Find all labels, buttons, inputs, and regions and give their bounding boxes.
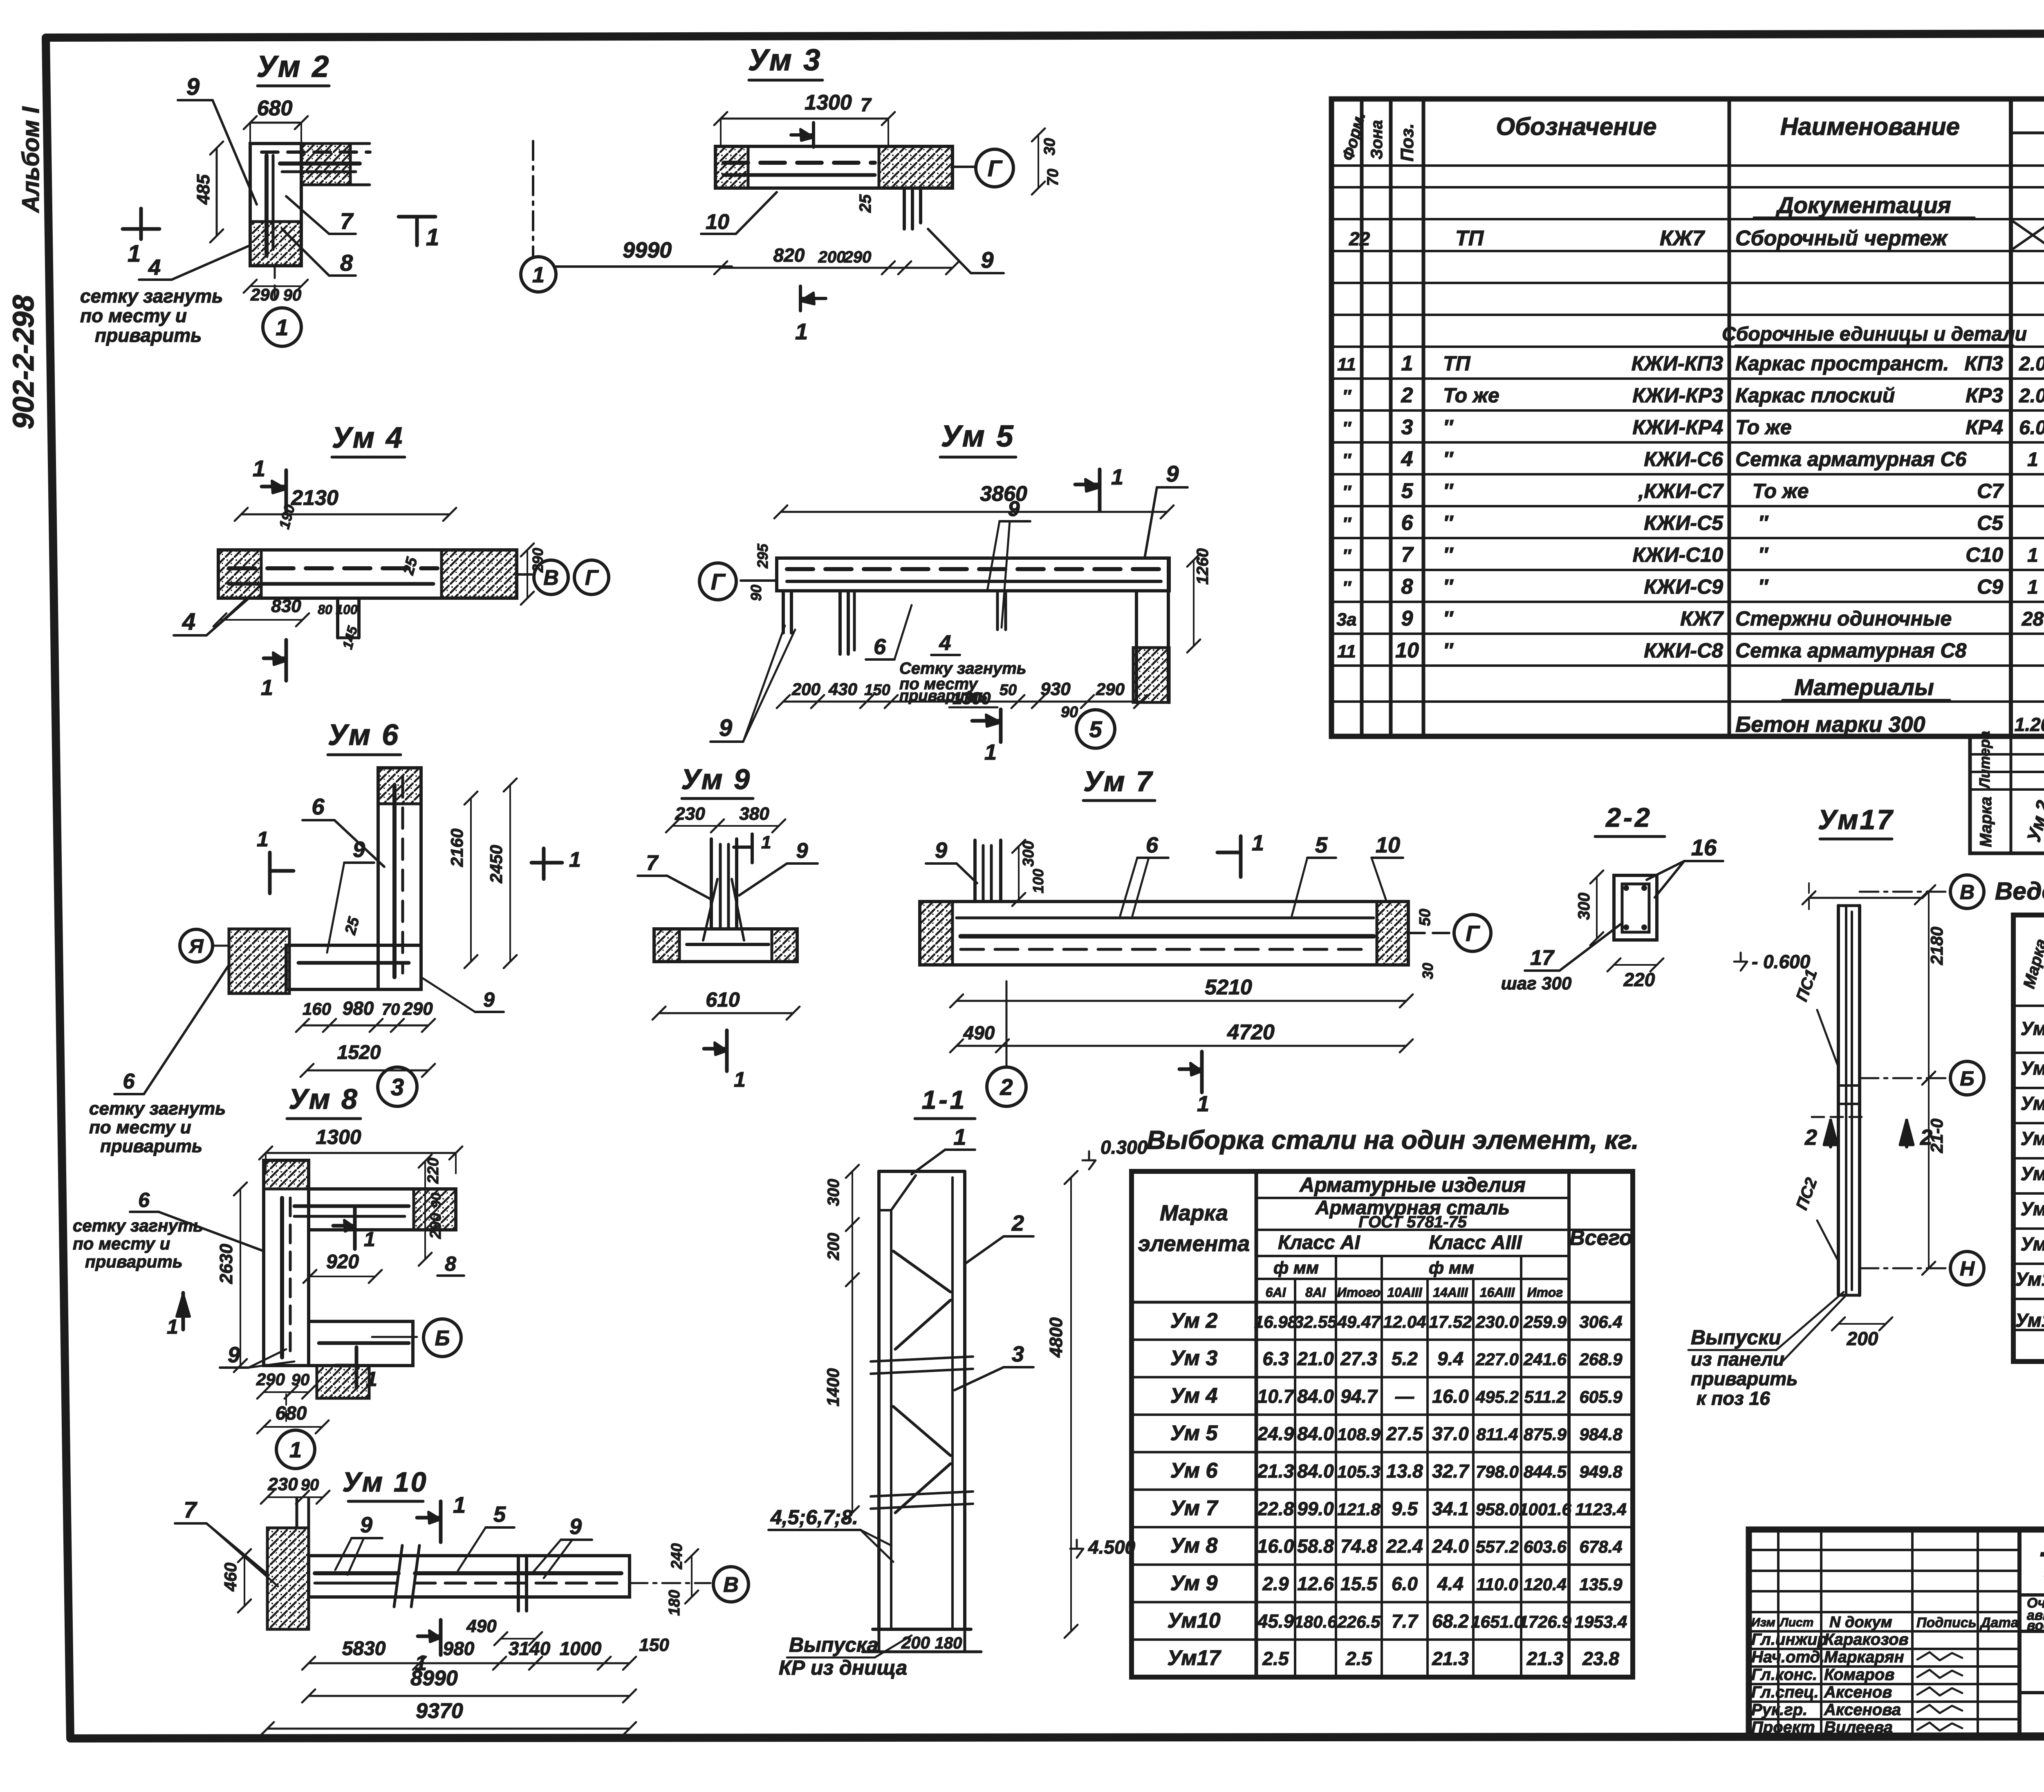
svg-text:КЖИ-С8: КЖИ-С8 <box>1644 639 1723 662</box>
svg-text:Марка: Марка <box>1977 797 1995 848</box>
svg-text:11: 11 <box>1337 354 1356 375</box>
svg-text:9: 9 <box>228 1343 240 1367</box>
svg-text:30: 30 <box>1419 963 1436 979</box>
Um9 base slab <box>654 929 797 962</box>
svg-text:1-1: 1-1 <box>922 1085 967 1115</box>
svg-text:21.0: 21.0 <box>1297 1348 1334 1369</box>
svg-text:7: 7 <box>184 1497 197 1523</box>
svg-text:Ум 9: Ум 9 <box>681 763 751 795</box>
Um10 rebar hooks mid <box>517 1557 520 1611</box>
svg-text:Ум 2: Ум 2 <box>257 49 331 83</box>
svg-text:8АI: 8АI <box>1305 1285 1326 1300</box>
svg-text:9: 9 <box>719 715 732 741</box>
Um4 right small dim 290 <box>527 550 528 598</box>
svg-text:Материалы: Материалы <box>1794 674 1934 700</box>
svg-text:24.0: 24.0 <box>1432 1536 1469 1557</box>
svg-text:″: ″ <box>1443 480 1454 502</box>
svg-text:6АI: 6АI <box>1266 1285 1286 1300</box>
svg-text:16.0: 16.0 <box>1432 1386 1469 1407</box>
svg-text:7: 7 <box>340 208 354 234</box>
svg-text:Ум 8: Ум 8 <box>289 1083 359 1115</box>
svg-text:Ум 3: Ум 3 <box>748 43 822 77</box>
svg-text:1: 1 <box>426 224 439 251</box>
svg-text:Ум8: Ум8 <box>2021 1198 2044 1219</box>
svg-text:290: 290 <box>402 999 433 1019</box>
title block description <box>2019 1593 2044 1597</box>
Um17 section arrows 2-2 <box>1812 1116 1864 1118</box>
svg-text:5: 5 <box>493 1502 506 1527</box>
Um3 drop stub <box>903 188 906 229</box>
Um8 circle right <box>372 1336 417 1338</box>
svg-text:17.52: 17.52 <box>1429 1312 1472 1331</box>
svg-text:4,5;6,7;8.: 4,5;6,7;8. <box>770 1506 858 1529</box>
svg-text:241.6: 241.6 <box>1523 1350 1567 1369</box>
svg-text:1: 1 <box>795 318 808 344</box>
svg-text:ГОСТ 5781-75: ГОСТ 5781-75 <box>1358 1213 1467 1231</box>
svg-text:Рук.гр.: Рук.гр. <box>1751 1701 1807 1719</box>
Um5 slab <box>777 558 1169 591</box>
axis line with circle 1 and dim 9990 <box>532 141 534 257</box>
Um10 right rotated dims 240 180 <box>691 1556 693 1597</box>
svg-text:2: 2 <box>1011 1211 1024 1236</box>
svg-text:″: ″ <box>1342 386 1351 406</box>
svg-text:4: 4 <box>148 255 161 280</box>
svg-text:″: ″ <box>1342 578 1351 598</box>
svg-text:1: 1 <box>953 1124 966 1150</box>
1-1 right dim 4800 <box>1070 1177 1072 1631</box>
svg-text:90: 90 <box>428 1193 444 1208</box>
svg-text:23.8: 23.8 <box>1582 1648 1619 1669</box>
svg-text:Документация: Документация <box>1775 192 1951 218</box>
Um17 panel element <box>1837 906 1840 1295</box>
svg-text:105.3: 105.3 <box>1337 1462 1380 1481</box>
Um3 slab reinforcement <box>724 161 875 165</box>
svg-text:2180: 2180 <box>1927 927 1946 965</box>
svg-text:Ум9: Ум9 <box>2021 1233 2044 1254</box>
Um7 slab reinforcement <box>961 934 1374 939</box>
svg-text:ТП: ТП <box>1443 352 1471 375</box>
svg-text:7.7: 7.7 <box>1392 1610 1419 1632</box>
svg-text:3: 3 <box>1012 1342 1024 1366</box>
svg-text:9990: 9990 <box>623 238 672 262</box>
svg-text:Сетка арматурная С6: Сетка арматурная С6 <box>1735 448 1967 471</box>
svg-text:90: 90 <box>1061 704 1078 721</box>
svg-text:В: В <box>1960 881 1975 904</box>
svg-text:108.9: 108.9 <box>1337 1424 1381 1444</box>
svg-text:200: 200 <box>825 1233 843 1260</box>
signatures scribbles <box>1917 1652 1962 1660</box>
Um8 circle 1 bottom <box>285 1394 287 1427</box>
Um5 mid stubs <box>996 591 999 630</box>
svg-text:″: ″ <box>1342 482 1351 502</box>
svg-text:Ум5: Ум5 <box>2021 1092 2044 1114</box>
specification table <box>1331 99 2044 736</box>
svg-text:Ум7: Ум7 <box>2021 1163 2044 1184</box>
svg-text:3140: 3140 <box>509 1638 551 1659</box>
svg-text:15.5: 15.5 <box>1340 1573 1378 1594</box>
svg-text:по месту и: по месту и <box>89 1117 191 1137</box>
svg-text:8: 8 <box>445 1252 456 1275</box>
Um17 panel joint marks <box>1838 1084 1860 1087</box>
Um5 circle G left <box>741 579 777 582</box>
svg-text:1123.4: 1123.4 <box>1575 1500 1626 1519</box>
svg-text:Вилеева: Вилеева <box>1824 1718 1893 1736</box>
svg-text:КЖИ-КП3: КЖИ-КП3 <box>1632 352 1723 375</box>
svg-text:610: 610 <box>706 988 740 1011</box>
svg-text:КЖИ-С6: КЖИ-С6 <box>1644 448 1724 471</box>
svg-text:сетку загнуть: сетку загнуть <box>80 285 223 307</box>
svg-text:875.9: 875.9 <box>1524 1424 1567 1444</box>
svg-text:Дата: Дата <box>1979 1615 2019 1631</box>
svg-text:Ум 7: Ум 7 <box>1083 765 1154 797</box>
svg-text:То же: То же <box>1735 416 1792 439</box>
svg-text:511.2: 511.2 <box>1524 1387 1566 1406</box>
svg-text:Ум 3: Ум 3 <box>1170 1346 1218 1370</box>
svg-text:5210: 5210 <box>1205 976 1252 999</box>
svg-text:″: ″ <box>1443 575 1454 598</box>
svg-text:1400: 1400 <box>823 1368 843 1406</box>
svg-text:Комаров: Комаров <box>1824 1666 1894 1684</box>
svg-text:557.2: 557.2 <box>1476 1537 1519 1557</box>
Um10 section marks 1 <box>439 1501 443 1542</box>
svg-text:1: 1 <box>366 1368 377 1391</box>
svg-text:из панели: из панели <box>1691 1348 1784 1370</box>
svg-text:Б: Б <box>435 1327 450 1350</box>
svg-text:200: 200 <box>818 248 846 266</box>
Um8 reinforcement <box>280 1198 284 1357</box>
svg-text:820: 820 <box>773 244 805 266</box>
svg-text:1: 1 <box>761 832 771 852</box>
svg-text:4800: 4800 <box>1046 1317 1066 1358</box>
svg-text:10: 10 <box>1376 833 1400 857</box>
Um3 bottom section mark <box>799 286 802 311</box>
svg-text:9.5: 9.5 <box>1392 1498 1418 1519</box>
svg-text:160: 160 <box>303 999 331 1018</box>
svg-text:КЖИ-С9: КЖИ-С9 <box>1644 575 1723 598</box>
svg-text:Стержни одиночные: Стержни одиночные <box>1735 607 1952 630</box>
svg-text:958.0: 958.0 <box>1476 1500 1519 1519</box>
svg-text:Поз.: Поз. <box>1397 123 1417 161</box>
svg-text:110.0: 110.0 <box>1477 1574 1518 1594</box>
svg-text:9: 9 <box>1008 497 1020 521</box>
svg-text:1: 1 <box>532 262 545 287</box>
svg-text:495.2: 495.2 <box>1475 1387 1519 1406</box>
Um4 bottom section mark <box>285 640 288 681</box>
svg-text:2: 2 <box>1920 1125 1932 1150</box>
svg-text:45.9: 45.9 <box>1257 1610 1294 1632</box>
svg-text:1: 1 <box>453 1492 466 1518</box>
svg-text:Маркарян: Маркарян <box>1824 1648 1904 1666</box>
svg-text:1000: 1000 <box>560 1638 602 1659</box>
svg-text:1300: 1300 <box>316 1126 361 1148</box>
svg-text:2.0: 2.0 <box>2019 385 2044 407</box>
svg-text:10: 10 <box>1395 639 1419 662</box>
svg-text:Ум 6: Ум 6 <box>328 719 400 751</box>
svg-text:1: 1 <box>2027 545 2038 566</box>
Um7 mark near 1-1 <box>1006 981 1008 994</box>
svg-text:Выборка стали на один элемент,: Выборка стали на один элемент, кг. <box>1147 1125 1639 1155</box>
svg-text:7: 7 <box>861 94 872 115</box>
Um17 axis circles B 5 N <box>1860 891 1949 893</box>
Um7 circle right <box>1408 932 1450 934</box>
svg-text:37.0: 37.0 <box>1432 1423 1469 1444</box>
svg-text:9: 9 <box>353 837 365 862</box>
svg-text:2.5: 2.5 <box>1345 1648 1372 1669</box>
svg-text:430: 430 <box>828 680 857 699</box>
svg-text:930: 930 <box>1040 679 1071 699</box>
svg-text:Ум 10: Ум 10 <box>342 1467 428 1498</box>
svg-text:3: 3 <box>1401 415 1413 439</box>
Um2 reinforcement bars <box>264 155 269 256</box>
svg-text:″: ″ <box>1735 543 1769 566</box>
svg-text:Изм: Изм <box>1751 1616 1775 1629</box>
svg-text:680: 680 <box>257 96 293 120</box>
svg-text:9: 9 <box>186 74 199 100</box>
svg-text:90: 90 <box>748 585 764 601</box>
svg-text:КЖИ-КР3: КЖИ-КР3 <box>1632 384 1723 407</box>
svg-text:Арматурные изделия: Арматурные изделия <box>1299 1173 1526 1196</box>
svg-text:Ведомость стержней на один эле: Ведомость стержней на один элемент, кг <box>1995 877 2044 905</box>
Um6 circle A left <box>180 929 213 962</box>
svg-text:9: 9 <box>360 1513 372 1537</box>
svg-text:290: 290 <box>529 548 546 573</box>
svg-text:4: 4 <box>939 631 951 655</box>
svg-text:80: 80 <box>318 602 332 617</box>
svg-text:Сборочный чертеж: Сборочный чертеж <box>1735 227 1948 250</box>
svg-text:1: 1 <box>984 740 997 765</box>
svg-text:к поз 16: к поз 16 <box>1697 1388 1770 1409</box>
svg-text:226.5: 226.5 <box>1337 1612 1381 1631</box>
svg-text:Проект: Проект <box>1751 1718 1815 1736</box>
svg-text:84.0: 84.0 <box>1297 1460 1334 1482</box>
svg-text:9: 9 <box>1401 607 1413 630</box>
svg-text:1: 1 <box>1197 1092 1209 1116</box>
Um5 bottom section mark <box>999 709 1003 742</box>
Um17 bottom dim 200 <box>1838 1323 1886 1325</box>
svg-text:290: 290 <box>427 1213 444 1239</box>
svg-text:94.7: 94.7 <box>1340 1386 1378 1407</box>
svg-text:798.0: 798.0 <box>1476 1462 1519 1481</box>
svg-text:Сетка арматурная С8: Сетка арматурная С8 <box>1735 639 1967 662</box>
svg-text:34.1: 34.1 <box>1432 1498 1469 1519</box>
svg-text:1: 1 <box>2027 449 2038 471</box>
svg-text:200: 200 <box>791 680 820 699</box>
Um6 bottom leg <box>286 945 421 989</box>
svg-text:1300: 1300 <box>953 689 991 708</box>
svg-text:Ум17: Ум17 <box>1167 1646 1221 1670</box>
svg-text:49.47: 49.47 <box>1337 1312 1381 1331</box>
svg-text:100: 100 <box>336 602 358 617</box>
svg-text:6: 6 <box>1401 511 1414 535</box>
Um3 circle G right <box>953 166 975 168</box>
svg-text:4720: 4720 <box>1227 1020 1275 1044</box>
svg-text:Выпуска: Выпуска <box>789 1633 879 1656</box>
svg-text:490: 490 <box>963 1022 995 1043</box>
svg-text:9370: 9370 <box>416 1699 463 1723</box>
svg-text:1: 1 <box>128 240 141 267</box>
svg-text:1: 1 <box>364 1228 375 1251</box>
svg-text:99.0: 99.0 <box>1297 1498 1334 1519</box>
Um4 circles V G <box>517 573 531 576</box>
1-1 column inner walls <box>890 1210 892 1629</box>
svg-text:- 0.600: - 0.600 <box>1752 951 1811 972</box>
svg-text:2: 2 <box>1401 384 1413 407</box>
svg-text:1: 1 <box>257 828 269 851</box>
svg-text:6.3: 6.3 <box>1263 1348 1289 1369</box>
svg-text:С7: С7 <box>1977 480 2004 502</box>
svg-text:2450: 2450 <box>486 845 506 884</box>
svg-text:32.7: 32.7 <box>1432 1460 1470 1482</box>
svg-text:230.0: 230.0 <box>1475 1312 1519 1331</box>
svg-text:3860: 3860 <box>980 482 1027 506</box>
svg-text:380: 380 <box>739 804 769 824</box>
svg-text:Итого: Итого <box>1337 1285 1381 1300</box>
svg-text:220: 220 <box>1623 969 1655 990</box>
svg-text:″: ″ <box>1735 575 1769 598</box>
svg-text:Г: Г <box>711 569 726 594</box>
svg-text:сетку загнуть: сетку загнуть <box>89 1099 226 1119</box>
svg-text:9: 9 <box>1166 461 1179 487</box>
svg-text:″: ″ <box>1443 416 1454 439</box>
svg-text:811.4: 811.4 <box>1477 1424 1518 1444</box>
svg-text:—: — <box>1395 1386 1414 1407</box>
steel summary table <box>1132 1171 1633 1677</box>
2-2 dim 220 <box>1614 964 1657 966</box>
Um2 section mark 1 left <box>123 227 159 231</box>
svg-text:6: 6 <box>874 635 886 659</box>
Um5 circle 5 <box>1076 710 1115 748</box>
svg-text:16АIII: 16АIII <box>1480 1285 1515 1300</box>
svg-text:Аксенова: Аксенова <box>1824 1701 1901 1719</box>
Um10 slab break marks <box>394 1545 402 1607</box>
svg-text:27.5: 27.5 <box>1386 1423 1423 1444</box>
svg-text:КЖ7: КЖ7 <box>1660 227 1705 250</box>
svg-text:Альбом I: Альбом I <box>18 106 44 213</box>
svg-text:980: 980 <box>443 1638 475 1659</box>
svg-text:То же: То же <box>1735 480 1809 502</box>
svg-text:10.7: 10.7 <box>1257 1386 1295 1407</box>
Um8 left vertical bar <box>264 1160 309 1366</box>
svg-text:2.5: 2.5 <box>1262 1648 1289 1669</box>
svg-text:Каракозов: Каракозов <box>1824 1631 1909 1648</box>
1-1 lattice diagonals <box>893 1251 950 1292</box>
svg-text:КР4: КР4 <box>1966 416 2003 439</box>
Um6 right dims 2160 2450 <box>470 798 472 962</box>
2-2 dim 300 left <box>1596 877 1598 939</box>
Um10 bottom dims row1 <box>309 1662 630 1664</box>
svg-text:70: 70 <box>382 1000 400 1018</box>
svg-text:844.5: 844.5 <box>1524 1462 1567 1481</box>
svg-text:Сборочные единицы и детали: Сборочные единицы и детали <box>1722 323 2027 345</box>
svg-text:9: 9 <box>569 1514 582 1539</box>
1-1 column outline <box>877 1171 881 1629</box>
svg-text:84.0: 84.0 <box>1297 1423 1334 1444</box>
svg-text:220: 220 <box>425 1158 442 1184</box>
svg-text:7: 7 <box>1401 543 1414 567</box>
Um2 top arm hatched <box>301 144 350 185</box>
svg-text:Г: Г <box>988 155 1003 181</box>
svg-text:259.9: 259.9 <box>1523 1312 1567 1331</box>
svg-text:902-2-298: 902-2-298 <box>7 295 40 429</box>
svg-text:22.4: 22.4 <box>1386 1536 1423 1557</box>
svg-text:9: 9 <box>981 247 993 273</box>
svg-text:4.500: 4.500 <box>1088 1536 1136 1558</box>
svg-text:9: 9 <box>935 838 947 863</box>
Um6 circle 3 <box>378 1067 417 1106</box>
1-1 base <box>873 1628 971 1631</box>
svg-text:4: 4 <box>182 608 195 635</box>
svg-text:N докум: N докум <box>1829 1614 1892 1631</box>
svg-text:шаг 300: шаг 300 <box>1501 973 1572 994</box>
Um2 axis circle 1 bottom <box>274 266 276 305</box>
Um7 bottom section mark <box>1200 1052 1204 1092</box>
svg-text:1953.4: 1953.4 <box>1575 1612 1627 1631</box>
svg-text:Б: Б <box>1960 1067 1974 1090</box>
svg-text:Ум17: Ум17 <box>2015 1310 2044 1331</box>
Um5 left stubs <box>782 591 785 633</box>
svg-text:по месту и: по месту и <box>80 305 187 326</box>
svg-text:С10: С10 <box>1966 543 2003 566</box>
svg-text:2.9: 2.9 <box>1262 1573 1289 1594</box>
svg-text:КР3: КР3 <box>1966 384 2003 407</box>
svg-text:КР из днища: КР из днища <box>779 1656 907 1679</box>
svg-text:Подпись: Подпись <box>1916 1615 1977 1631</box>
Um9 vertical bar <box>710 839 713 928</box>
Um7 dims 490 4720 <box>957 1045 1406 1047</box>
svg-text:″: ″ <box>1443 543 1454 566</box>
svg-text:68.2: 68.2 <box>1432 1610 1469 1632</box>
svg-text:″: ″ <box>1342 546 1351 566</box>
svg-text:4: 4 <box>1401 447 1413 471</box>
svg-text:1520: 1520 <box>337 1042 381 1063</box>
svg-text:1300: 1300 <box>805 91 852 114</box>
svg-text:11: 11 <box>1337 641 1356 662</box>
svg-text:84.0: 84.0 <box>1297 1386 1334 1407</box>
Um7 slab <box>920 902 1408 965</box>
svg-text:150: 150 <box>864 682 890 699</box>
svg-text:1: 1 <box>1401 352 1413 375</box>
svg-text:1: 1 <box>734 1068 746 1092</box>
svg-text:Бетон марки 300: Бетон марки 300 <box>1735 712 1925 737</box>
svg-text:306.4: 306.4 <box>1579 1312 1622 1331</box>
svg-text:Ум 2: Ум 2 <box>1170 1309 1218 1332</box>
svg-text:180: 180 <box>935 1634 962 1652</box>
svg-text:0.300: 0.300 <box>1100 1137 1148 1158</box>
svg-text:2630: 2630 <box>216 1244 236 1284</box>
svg-text:приварить: приварить <box>95 325 202 346</box>
2-2 column box <box>1614 875 1657 940</box>
svg-text:949.8: 949.8 <box>1579 1462 1623 1481</box>
Um10 left column <box>267 1528 309 1629</box>
Um3 right dims <box>1038 135 1039 188</box>
1-1 break marks <box>871 1357 973 1361</box>
svg-text:9: 9 <box>483 988 495 1011</box>
svg-text:227.0: 227.0 <box>1475 1350 1519 1369</box>
Um5 right vertical dim 1260 <box>1193 560 1195 646</box>
Um7 circle 2 <box>987 1067 1026 1106</box>
Um8 bottom slab <box>309 1321 413 1366</box>
svg-text:Ум17: Ум17 <box>1818 804 1894 835</box>
svg-text:2: 2 <box>1000 1074 1013 1100</box>
svg-text:300: 300 <box>1020 841 1037 867</box>
svg-text:2: 2 <box>1804 1125 1817 1150</box>
svg-text:50: 50 <box>1416 909 1434 926</box>
svg-text:1: 1 <box>1111 465 1123 489</box>
svg-text:2-2: 2-2 <box>1605 802 1652 832</box>
svg-text:Г: Г <box>1466 921 1480 946</box>
title block <box>1749 1530 2044 1737</box>
svg-text:Ум 5: Ум 5 <box>941 419 1015 453</box>
